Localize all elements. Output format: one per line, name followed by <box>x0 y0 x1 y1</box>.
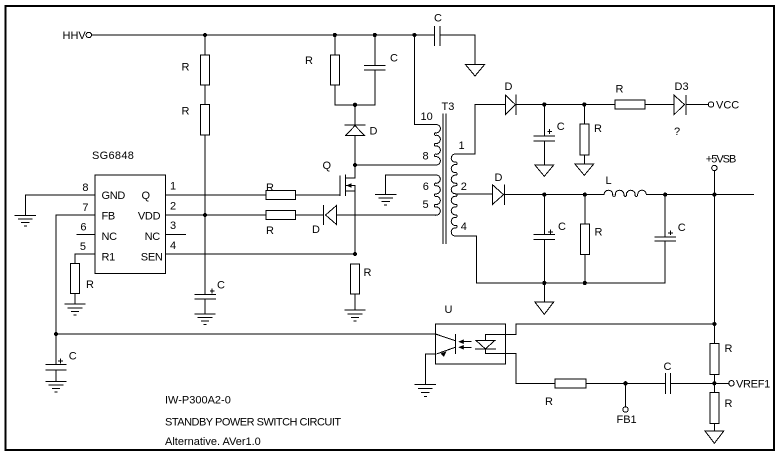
resistor R output bleeder <box>580 195 589 283</box>
node junction opto anode rail <box>712 322 716 326</box>
wire VCC rail <box>516 104 615 106</box>
ground arrow output rail <box>535 283 554 314</box>
wire inductor to +5VSB <box>647 194 754 196</box>
plus VCC cap <box>547 129 552 134</box>
terminal HHV <box>86 32 91 37</box>
svg-text:10: 10 <box>421 111 433 123</box>
node junction FB1 <box>623 381 627 385</box>
ground pin 8 <box>15 195 35 226</box>
svg-text:5: 5 <box>423 199 429 211</box>
ground fb cap <box>46 382 66 393</box>
resistor R on R1 pin <box>71 264 80 305</box>
node junction +5VSB <box>712 193 716 197</box>
ground R1 resistor <box>65 304 85 315</box>
wire LED cathode to feedback <box>485 354 555 384</box>
wire pin 5 R1 <box>75 254 95 264</box>
svg-text:C: C <box>390 53 398 65</box>
svg-text:SG6848: SG6848 <box>92 150 134 162</box>
inductor L <box>604 190 646 196</box>
svg-text:1: 1 <box>459 140 465 152</box>
transformer T3 secondary winding 1-2-4 <box>451 154 457 236</box>
resistor R VCC series <box>615 100 645 109</box>
plus fb cap <box>58 359 63 364</box>
plus output cap2 <box>668 230 673 235</box>
diode D vdd rectifier <box>323 206 436 225</box>
resistor R vdd line <box>266 211 296 220</box>
wire +5VSB vertical to divider <box>713 195 715 344</box>
wire VREF1 stub <box>714 382 728 384</box>
wire VDD node down to cap <box>204 215 206 295</box>
wire pin 4 SEN <box>165 253 355 255</box>
wire opto emitter to ground <box>425 354 435 384</box>
diode D snubber clamp <box>345 105 365 165</box>
resistor R divider lower <box>710 383 719 431</box>
svg-text:D3: D3 <box>675 81 689 93</box>
resistor R startup lower <box>201 105 210 135</box>
svg-text:R: R <box>266 225 274 237</box>
ground vdd cap <box>195 314 215 325</box>
ground sense resistor <box>345 310 365 321</box>
node junction VREF1 <box>712 381 716 385</box>
svg-text:4: 4 <box>461 221 467 233</box>
ground arrow VCC bleeder <box>575 164 594 175</box>
svg-text:L: L <box>606 175 612 187</box>
wire pin 6 NC stub <box>77 234 95 236</box>
wire pin 7 FB stub <box>56 214 95 216</box>
opto light arrow upper <box>458 339 471 344</box>
ground arrow divider <box>705 431 724 443</box>
svg-text:U: U <box>445 304 453 316</box>
wire output ground rail <box>477 282 666 284</box>
svg-text:C: C <box>678 222 686 234</box>
svg-text:R1: R1 <box>102 252 116 264</box>
wire output rail to inductor <box>505 194 605 196</box>
wire T3 pin 10 <box>414 35 436 125</box>
svg-text:C: C <box>69 351 77 363</box>
wire R to D3 <box>645 104 674 106</box>
wire between startup resistors <box>204 85 206 105</box>
svg-text:2: 2 <box>170 201 176 213</box>
diode D output rectifier <box>493 185 505 205</box>
svg-text:IW-P300A2-0: IW-P300A2-0 <box>165 395 231 407</box>
svg-text:4: 4 <box>170 240 176 252</box>
wire gate resistor to MOSFET gate <box>296 194 341 196</box>
capacitor C output1 electrolytic <box>534 195 555 283</box>
terminal +5VSB <box>712 165 717 194</box>
svg-text:Q: Q <box>142 190 151 202</box>
svg-text:R: R <box>725 343 733 355</box>
svg-text:NC: NC <box>102 231 118 243</box>
resistor R sense <box>351 264 360 310</box>
node junction ground rail cap1 <box>542 281 546 285</box>
wire T3 pin 2 to output diode <box>455 193 492 195</box>
svg-text:R: R <box>182 62 190 74</box>
wire drain to T3 pin 8 <box>355 164 436 166</box>
node junction snubber R <box>333 33 337 37</box>
diode opto LED <box>475 335 495 354</box>
node junction output cap1 <box>542 193 546 197</box>
svg-text:Q: Q <box>323 160 332 172</box>
resistor R startup upper <box>201 35 210 85</box>
svg-text:VCC: VCC <box>716 100 739 112</box>
svg-text:D: D <box>312 224 320 236</box>
wire pin 2 VDD <box>165 214 266 216</box>
node junction VCC bleeder <box>582 102 586 106</box>
svg-text:R: R <box>364 267 372 279</box>
svg-text:R: R <box>545 396 553 408</box>
svg-text:R: R <box>266 182 274 194</box>
node junction VDD <box>203 213 207 217</box>
wire HHV top rail <box>92 34 435 36</box>
svg-text:VREF1: VREF1 <box>736 379 770 391</box>
resistor R divider upper <box>710 344 719 384</box>
svg-text:R: R <box>595 227 603 239</box>
svg-text:VDD: VDD <box>138 211 161 223</box>
resistor R feedback <box>555 379 586 388</box>
svg-text:C: C <box>557 121 565 133</box>
svg-text:D: D <box>370 126 378 138</box>
svg-text:STANDBY POWER SWITCH CIRCUIT: STANDBY POWER SWITCH CIRCUIT <box>165 417 341 429</box>
node junction drain <box>353 163 357 167</box>
diode D3 <box>674 95 686 114</box>
svg-text:SEN: SEN <box>141 252 163 264</box>
svg-text:2: 2 <box>461 181 467 193</box>
svg-text:R: R <box>305 55 313 67</box>
capacitor C feedback <box>665 374 714 394</box>
svg-text:FB1: FB1 <box>617 414 637 426</box>
terminal FB1 <box>623 383 628 412</box>
capacitor C snubber <box>365 35 386 105</box>
wire startup chain to VDD node <box>204 135 206 215</box>
svg-text:R: R <box>86 279 94 291</box>
svg-text:Alternative. AVer1.0: Alternative. AVer1.0 <box>165 436 261 448</box>
wire LED anode to +5VSB rail <box>485 324 714 335</box>
svg-text:5: 5 <box>80 241 86 253</box>
node junction ground rail bleeder <box>583 281 587 285</box>
wire T3 pin 6 to ground <box>386 175 437 194</box>
ground opto emitter <box>415 384 435 396</box>
svg-text:C: C <box>664 361 672 373</box>
svg-text:C: C <box>217 280 225 292</box>
node junction FB corner cap <box>54 332 58 336</box>
node junction HHV-R chain <box>203 33 207 37</box>
wire feedback to cap <box>586 382 665 384</box>
transformer T3 primary winding 6-5 <box>434 175 440 215</box>
node junction output bleeder <box>583 193 587 197</box>
transformer T3 core <box>443 114 446 244</box>
wire T3 pin 4 down <box>455 236 476 283</box>
resistor R VCC bleeder <box>580 105 589 165</box>
opto light arrow lower <box>458 345 471 350</box>
plus output cap1 <box>548 229 553 233</box>
capacitor C output2 electrolytic <box>655 195 676 283</box>
wire T3 pin 1 to VCC diode <box>455 105 505 155</box>
wire vdd resistor to diode <box>296 214 324 216</box>
capacitor C vdd electrolytic <box>195 295 215 314</box>
svg-text:6: 6 <box>423 181 429 193</box>
capacitor C VCC electrolytic <box>534 105 555 166</box>
ground T3 pin 6 <box>375 194 395 205</box>
ground arrow top cap <box>466 35 485 76</box>
svg-text:R: R <box>725 398 733 410</box>
svg-text:R: R <box>616 84 624 96</box>
svg-text:1: 1 <box>170 181 176 193</box>
op-amp U1 : IC SG6848 body <box>95 175 165 274</box>
node junction snubber C <box>373 33 377 37</box>
svg-text:FB: FB <box>102 211 115 223</box>
optocoupler U body <box>436 324 506 364</box>
svg-text:6: 6 <box>80 222 86 234</box>
resistor R gate <box>266 191 296 200</box>
wire pin 3 NC stub <box>165 234 185 236</box>
svg-text:C: C <box>558 221 566 233</box>
wire snubber bottom <box>335 104 375 106</box>
svg-text:R: R <box>182 106 190 118</box>
svg-text:7: 7 <box>82 202 88 214</box>
wire FB long horizontal to opto collector <box>56 333 436 335</box>
svg-text:NC: NC <box>145 231 161 243</box>
svg-text:R: R <box>594 123 602 135</box>
svg-text:3: 3 <box>170 220 176 232</box>
node junction output cap2 <box>663 193 667 197</box>
svg-text:GND: GND <box>102 190 126 202</box>
wire pin 8 GND <box>25 194 95 196</box>
svg-text:C: C <box>434 13 442 25</box>
wire pin 1 Q to gate resistor <box>165 194 266 196</box>
capacitor C top coupling <box>434 27 475 46</box>
transistor opto phototransistor <box>436 334 456 357</box>
svg-text:T3: T3 <box>442 101 455 113</box>
diode D VCC rectifier <box>505 95 516 115</box>
wire FB vertical <box>55 215 57 334</box>
svg-text:D: D <box>495 172 503 184</box>
capacitor C fb electrolytic <box>46 334 66 381</box>
svg-text:8: 8 <box>82 182 88 194</box>
ground arrow VCC cap <box>535 165 554 176</box>
svg-text:D: D <box>505 81 513 93</box>
terminal VCC <box>708 102 713 107</box>
resistor R snubber <box>330 35 339 105</box>
transformer T3 primary winding 10-8 <box>434 125 440 165</box>
plus vdd cap <box>210 289 215 294</box>
terminal VREF1 <box>729 381 734 386</box>
svg-text:+5VSB: +5VSB <box>706 154 736 166</box>
svg-text:HHV: HHV <box>63 30 87 42</box>
transistor Q2 MOSFET <box>340 165 355 254</box>
node junction VCC cap <box>542 102 546 106</box>
svg-text:8: 8 <box>423 151 429 163</box>
svg-text:?: ? <box>674 126 680 138</box>
node junction T3 pin10 <box>412 33 416 37</box>
wire D3 to VCC terminal <box>686 104 708 106</box>
node junction snubber-diode <box>353 103 357 107</box>
node junction SEN-source <box>353 252 357 256</box>
